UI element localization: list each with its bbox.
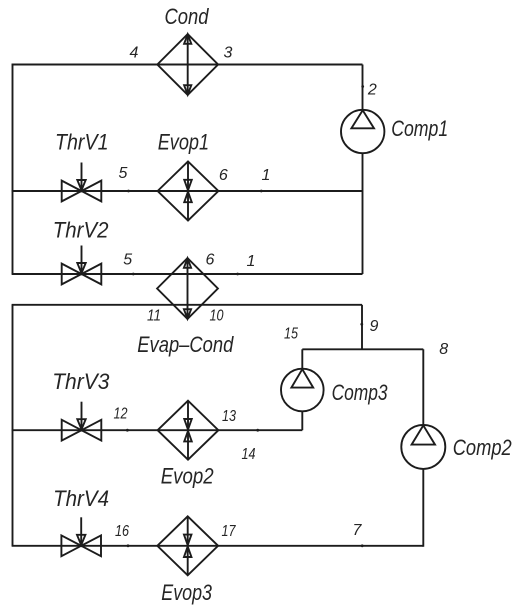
svg-text:ThrV3: ThrV3 <box>52 369 110 394</box>
svg-text:14: 14 <box>242 446 256 463</box>
svg-text:2: 2 <box>367 82 377 99</box>
svg-text:Comp3: Comp3 <box>332 380 389 405</box>
svg-text:ThrV1: ThrV1 <box>55 130 109 155</box>
svg-text:5: 5 <box>123 252 132 269</box>
svg-text:3: 3 <box>224 45 233 62</box>
svg-text:ThrV2: ThrV2 <box>53 218 109 243</box>
svg-text:13: 13 <box>222 408 236 425</box>
svg-text:6: 6 <box>206 252 215 269</box>
svg-text:ThrV4: ThrV4 <box>53 486 109 511</box>
svg-text:1: 1 <box>247 253 256 270</box>
svg-text:1: 1 <box>262 167 271 184</box>
svg-text:11: 11 <box>147 308 161 325</box>
svg-text:10: 10 <box>210 308 224 325</box>
svg-text:4: 4 <box>130 45 139 62</box>
svg-text:Cond: Cond <box>165 4 210 29</box>
svg-text:15: 15 <box>284 326 298 343</box>
svg-text:Evop2: Evop2 <box>161 464 214 489</box>
svg-text:Comp1: Comp1 <box>391 116 448 141</box>
svg-text:7: 7 <box>353 522 363 539</box>
svg-text:5: 5 <box>119 165 128 182</box>
svg-text:Evop1: Evop1 <box>158 130 209 155</box>
svg-text:16: 16 <box>115 523 129 540</box>
svg-text:Comp2: Comp2 <box>453 435 512 460</box>
svg-text:Evop3: Evop3 <box>161 580 212 605</box>
svg-text:9: 9 <box>370 318 379 335</box>
svg-text:8: 8 <box>439 341 448 358</box>
svg-text:Evap–Cond: Evap–Cond <box>137 332 234 357</box>
svg-text:12: 12 <box>114 406 128 423</box>
svg-text:6: 6 <box>219 167 228 184</box>
svg-text:17: 17 <box>222 523 237 540</box>
